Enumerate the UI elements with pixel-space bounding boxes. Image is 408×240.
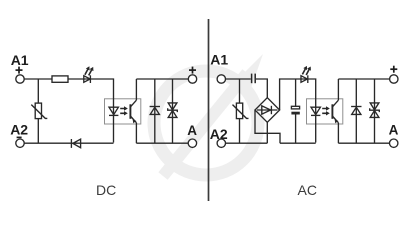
wire collector to + rail <box>135 79 137 100</box>
wire varistor branch <box>37 79 39 143</box>
wire bridge DC- dogleg <box>255 111 280 144</box>
svg-text:AC: AC <box>298 182 317 198</box>
opto LED (inside U2) <box>311 107 320 115</box>
svg-text:DC: DC <box>96 182 116 198</box>
diode D6 <box>351 107 361 115</box>
optocoupler U1 box <box>105 99 141 124</box>
terminal A1 <box>217 75 225 83</box>
optocoupler U2 box <box>307 99 343 124</box>
wire output top rail <box>136 78 188 80</box>
wire varistor branch <box>239 79 241 143</box>
opto LED (inside U1) <box>109 107 118 115</box>
label + (AC output) <box>390 66 397 73</box>
wire diode branch <box>355 79 357 143</box>
terminal A1 <box>16 75 24 83</box>
opto emission arrows <box>322 106 330 115</box>
wire emitter to A rail <box>135 123 137 144</box>
terminal A2 <box>16 139 24 147</box>
capacitor C1 (series) <box>252 74 256 84</box>
terminal + <box>188 75 196 83</box>
suppressor diode D7 (bidirectional) <box>370 103 380 118</box>
capacitor C2 (filter, polarized) <box>291 79 299 143</box>
wire cap to bridge top <box>256 79 267 98</box>
watermark logo <box>154 54 263 176</box>
svg-text:A2: A2 <box>10 122 28 138</box>
divider line <box>208 19 210 201</box>
diode D2 (input protection) <box>71 139 80 148</box>
svg-text:A2: A2 <box>210 126 228 142</box>
opto phototransistor Q1 <box>130 100 136 123</box>
resistor R1 <box>52 76 68 82</box>
polarity + under A1 <box>16 67 23 74</box>
svg-text:A: A <box>187 123 197 138</box>
terminal A <box>390 139 398 147</box>
wire bottom rail input <box>24 142 113 144</box>
varistor R3 <box>233 103 249 119</box>
svg-text:A1: A1 <box>210 52 228 68</box>
wire bridge DC+ up <box>280 79 316 143</box>
svg-text:A1: A1 <box>11 52 29 68</box>
wire top input <box>226 78 251 80</box>
terminal A <box>188 139 196 147</box>
wire output bottom rail <box>338 142 389 144</box>
wire emitter to A rail <box>337 123 339 144</box>
wire suppressor branch <box>374 79 376 143</box>
wire output bottom rail <box>136 142 188 144</box>
wire output top rail <box>338 78 389 80</box>
wire top rail input <box>24 79 113 143</box>
terminal A2 <box>217 139 225 147</box>
wire diode branch <box>154 79 156 143</box>
LED D1 <box>84 66 94 83</box>
wire bottom input rail <box>226 142 268 144</box>
opto emission arrows <box>120 106 128 115</box>
wire bridge bottom to A2 rail <box>266 122 268 143</box>
terminal + <box>390 75 398 83</box>
opto phototransistor Q2 <box>332 100 338 123</box>
diode D3 <box>150 107 160 115</box>
suppressor diode D4 (bidirectional) <box>168 103 178 118</box>
varistor R2 <box>31 103 47 119</box>
wire suppressor branch <box>172 79 174 143</box>
LED D5 <box>301 66 311 83</box>
bridge rectifier B1 <box>255 98 280 123</box>
svg-text:A: A <box>389 122 399 137</box>
polarity - above A2 circle <box>17 136 22 138</box>
label + (DC output) <box>189 67 196 74</box>
wire DC- bottom rail <box>280 142 316 144</box>
wire collector to + rail <box>337 79 339 100</box>
